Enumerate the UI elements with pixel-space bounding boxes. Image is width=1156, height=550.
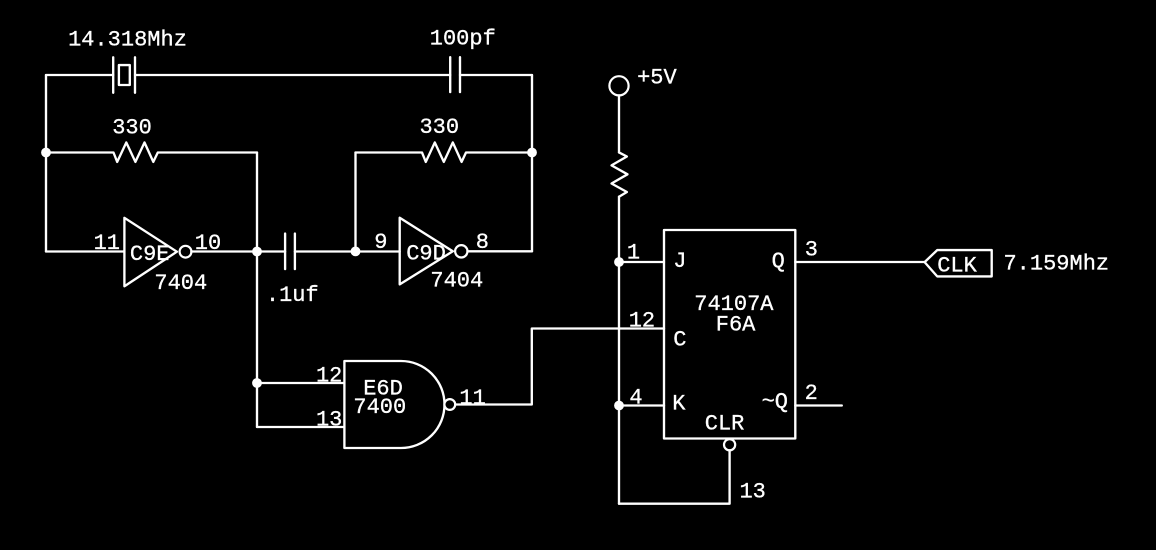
svg-text:7404: 7404 [154, 271, 207, 296]
svg-text:11: 11 [459, 386, 485, 411]
svg-text:12: 12 [316, 364, 342, 389]
svg-text:C: C [673, 328, 686, 353]
IC U4 74107A box [664, 230, 795, 439]
node junction at NAND pin 12 [252, 378, 262, 388]
svg-text:7404: 7404 [430, 269, 483, 294]
svg-text:7.159Mhz: 7.159Mhz [1003, 252, 1109, 277]
node junction at K pin [614, 401, 624, 411]
op-amp U2 inverter C9D [400, 218, 468, 285]
resistor R3 vertical [612, 152, 628, 196]
svg-text:+5V: +5V [637, 66, 677, 91]
wire C9E input [46, 250, 124, 252]
wire ~Q output [795, 404, 842, 406]
op-amp U1 inverter C9E [124, 218, 191, 286]
svg-text:3: 3 [805, 238, 818, 263]
wire NAND pin 13 [257, 426, 344, 428]
node junction at R1 left [41, 148, 51, 158]
wire C9D output to right vertical [468, 250, 533, 252]
wire vertical down to NAND inputs [256, 252, 258, 428]
capacitor C2 [285, 234, 295, 270]
svg-text:9: 9 [374, 230, 387, 255]
svg-text:C9D: C9D [406, 242, 446, 267]
svg-text:2: 2 [805, 381, 818, 406]
svg-text:100pf: 100pf [430, 27, 496, 52]
capacitor C1 [450, 57, 460, 92]
svg-text:F6A: F6A [716, 313, 756, 338]
wire NAND pin 12 [257, 382, 344, 384]
svg-text:330: 330 [419, 115, 459, 140]
wire crystal to capacitor C1 [135, 74, 450, 76]
svg-text:K: K [672, 392, 686, 417]
node junction at C9D input loop [351, 247, 361, 257]
resistor R1 [46, 143, 257, 162]
svg-text:J: J [673, 249, 686, 274]
svg-text:12: 12 [629, 309, 655, 334]
svg-text:7400: 7400 [353, 395, 406, 420]
wire capacitor C1 to right vertical [460, 74, 532, 76]
wire left vertical of first loop [45, 75, 47, 252]
wire right vertical of first loop [256, 153, 258, 252]
wire +5V to resistor R3 [618, 95, 620, 152]
svg-text:~Q: ~Q [762, 390, 788, 415]
wire top-left to crystal [46, 74, 113, 76]
svg-text:CLR: CLR [705, 412, 745, 437]
wire C9E output to .1uf [191, 250, 285, 252]
wire K pin [619, 404, 664, 406]
svg-text:CLK: CLK [937, 254, 977, 279]
wire right vertical of second loop [531, 75, 533, 251]
NAND gate U3 E6D [344, 361, 455, 448]
svg-text:13: 13 [316, 408, 342, 433]
svg-text:.1uf: .1uf [266, 283, 319, 308]
svg-text:11: 11 [94, 231, 120, 256]
wire CLR return loop [619, 450, 730, 503]
crystal Y1 [113, 57, 135, 93]
wire J pin [619, 261, 664, 263]
svg-text:Q: Q [772, 249, 785, 274]
power +5V terminal circle [609, 76, 628, 95]
node junction C9E output [252, 247, 262, 257]
wire .1uf to C9D input [295, 250, 400, 252]
node junction at J pin [614, 257, 624, 267]
node CLK output flag [925, 250, 992, 276]
svg-text:C9E: C9E [130, 242, 170, 267]
svg-text:330: 330 [112, 116, 152, 141]
svg-text:4: 4 [629, 386, 642, 411]
svg-text:14.318Mhz: 14.318Mhz [68, 28, 187, 53]
svg-text:13: 13 [739, 480, 765, 505]
wire NAND output to C input [455, 329, 664, 405]
resistor R2 [356, 143, 533, 162]
CLR bubble [724, 439, 735, 450]
wire Q output [795, 261, 924, 263]
node junction at R2 right [527, 148, 537, 158]
wire R3 down through C crossing to K junction and bottom [618, 197, 620, 504]
wire left vertical of second loop [354, 153, 356, 252]
